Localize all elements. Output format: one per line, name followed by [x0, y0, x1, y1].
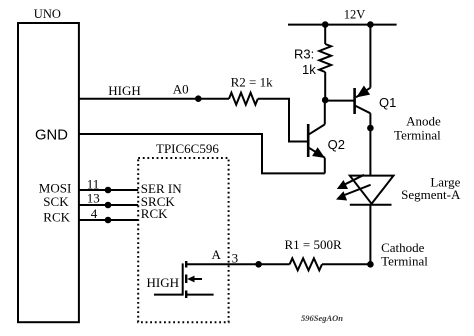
wire node to Q1 base — [325, 100, 354, 102]
node MOSI dot — [105, 187, 112, 194]
svg-text:12V: 12V — [344, 7, 366, 21]
node A0 junction dot — [195, 95, 202, 102]
svg-text:Terminal: Terminal — [381, 253, 428, 268]
LED emission arrow upper — [337, 175, 364, 189]
svg-text:R3:: R3: — [294, 47, 314, 62]
svg-text:UNO: UNO — [34, 7, 61, 21]
LED emission arrow lower — [336, 185, 371, 201]
svg-text:Terminal: Terminal — [394, 128, 441, 143]
svg-text:R2 = 1k: R2 = 1k — [231, 75, 274, 90]
svg-text:HIGH: HIGH — [108, 83, 141, 98]
svg-text:11: 11 — [87, 177, 100, 192]
svg-text:TPIC6C596: TPIC6C596 — [156, 141, 219, 156]
MOSFET channel source tick — [185, 291, 187, 299]
transistor Q2 — [308, 100, 325, 173]
svg-text:A: A — [212, 247, 222, 262]
wire HIGH/A0 from UNO to R2 — [79, 98, 229, 100]
12V supply rail — [288, 24, 397, 26]
MOSFET gate line — [154, 263, 183, 294]
MOSFET channel body tick — [185, 275, 187, 284]
svg-text:Segment-A: Segment-A — [401, 187, 461, 202]
svg-text:HIGH: HIGH — [147, 275, 180, 290]
wire LED cathode down — [369, 205, 371, 264]
MOSFET body arrow — [187, 276, 202, 283]
svg-text:SCK: SCK — [43, 194, 69, 209]
svg-text:4: 4 — [91, 206, 98, 221]
wire R2 to Q2 base — [258, 99, 308, 142]
resistor R1 — [290, 258, 322, 270]
node pin3 junction dot — [255, 261, 262, 268]
wire drain pin3 to R1 — [186, 263, 289, 265]
wire GND to Q2 emitter — [79, 134, 325, 173]
svg-text:R1 = 500R: R1 = 500R — [285, 237, 343, 252]
wire SCK to SRCK — [79, 204, 138, 206]
resistor R3 — [319, 25, 331, 100]
svg-text:Q1: Q1 — [379, 95, 396, 110]
node RCK dot — [105, 217, 112, 224]
LED Large Segment-A diode — [350, 176, 394, 205]
node R3/Q1 base/Q2 collector junction — [322, 97, 329, 104]
UNO board box — [18, 23, 79, 322]
MOSFET channel drain tick — [185, 261, 187, 268]
svg-text:13: 13 — [87, 191, 100, 206]
node rail R3 dot — [322, 21, 329, 28]
svg-text:1k: 1k — [302, 62, 316, 77]
wire RCK to RCK — [79, 219, 138, 221]
TPIC6C596 dashed box — [138, 158, 228, 322]
MOSFET source wire — [186, 294, 213, 296]
svg-text:596SegAOn: 596SegAOn — [301, 313, 343, 323]
resistor R2 — [229, 93, 258, 105]
svg-text:Anode: Anode — [406, 114, 441, 129]
svg-text:GND: GND — [35, 128, 68, 144]
node cathode terminal dot — [367, 261, 374, 268]
wire R1 to cathode node — [322, 263, 370, 265]
wire MOSI to SER IN — [79, 189, 138, 191]
svg-text:Q2: Q2 — [328, 137, 345, 152]
svg-text:RCK: RCK — [141, 206, 168, 221]
node SCK dot — [105, 202, 112, 209]
svg-text:RCK: RCK — [43, 209, 70, 224]
node anode terminal dot — [367, 125, 374, 132]
svg-text:A0: A0 — [173, 82, 189, 97]
wire anode node to LED — [369, 128, 371, 176]
node rail Q1 dot — [367, 21, 374, 28]
transistor Q1 — [355, 25, 371, 128]
